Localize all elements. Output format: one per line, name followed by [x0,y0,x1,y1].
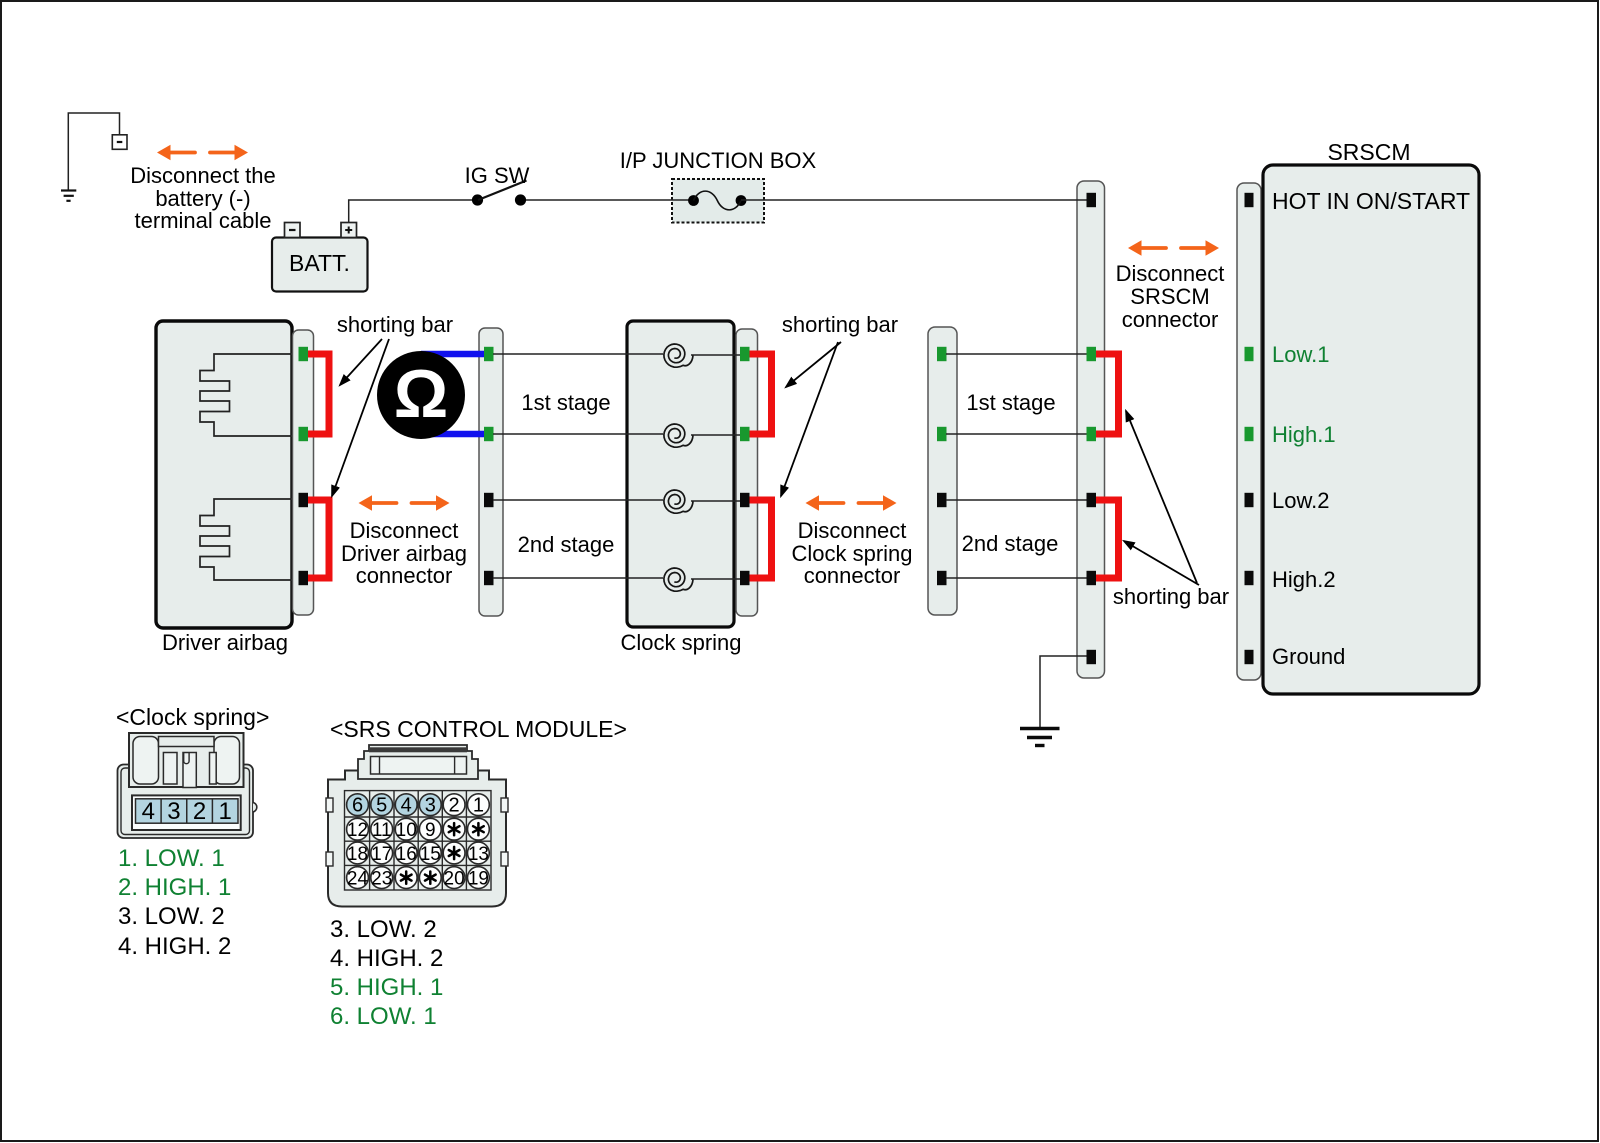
disconnect SRSCM arrows (orange) [1128,240,1219,256]
pins [484,347,494,585]
shorting bar (driver airbag, 1st stage) [307,354,329,434]
pins [937,347,947,585]
SRSCM legend [330,916,443,1030]
svg-text:3. LOW. 2: 3. LOW. 2 [118,903,225,930]
svg-text:23: 23 [371,868,392,889]
svg-text:Clock spring: Clock spring [620,630,741,655]
arrow to SRSCM shorting bar 1 [1126,411,1197,583]
Clock spring box [627,321,734,627]
svg-text:shorting bar: shorting bar [782,312,898,337]
svg-text:Disconnect: Disconnect [1116,261,1225,286]
svg-text:3: 3 [167,798,180,825]
svg-text:2nd stage: 2nd stage [962,531,1059,556]
svg-text:<SRS CONTROL MODULE>: <SRS CONTROL MODULE> [330,716,627,742]
svg-text:connector: connector [356,563,453,588]
svg-text:19: 19 [468,868,489,889]
svg-text:9: 9 [425,820,436,841]
svg-text:5: 5 [376,795,387,817]
svg-text:20: 20 [444,868,465,889]
ohmmeter symbol [377,351,465,439]
wire battery (-) to ground [68,113,119,190]
svg-text:terminal cable: terminal cable [135,208,272,233]
I/P JUNCTION BOX [620,148,817,223]
svg-text:3. LOW. 2: 3. LOW. 2 [330,916,437,943]
svg-text:1. LOW. 1: 1. LOW. 1 [118,845,225,872]
svg-text:connector: connector [804,563,901,588]
blue wire top (ohmmeter to pin) [421,351,487,358]
wires strip to clock spring [493,354,663,578]
svg-text:Ω: Ω [394,356,449,432]
SRSCM connector top tab [358,745,478,779]
clock spring right connector strip [736,329,758,616]
wire junction box to SRSCM harness connector [741,199,1087,201]
arrow to clock spring shorting bar 1 [786,342,841,387]
battery (-) terminal connector box [112,135,127,150]
blue wire bottom [421,431,487,438]
shorting bar (clock spring, 2nd stage) [748,500,772,578]
svg-text:shorting bar: shorting bar [337,312,453,337]
svg-text:High.2: High.2 [1272,567,1336,592]
harness strip (SRSCM side left) [928,327,957,615]
squib igniter 2 (2nd stage) [200,499,292,580]
svg-text:10: 10 [396,820,417,841]
disconnect clock spring arrows (orange) [806,495,897,511]
shorting bar (driver airbag, 2nd stage) [307,500,329,578]
disconnect driver airbag arrows (orange) [359,495,450,511]
pins driver airbag connector [299,347,309,585]
svg-text:shorting bar: shorting bar [1113,584,1229,609]
svg-text:Low.1: Low.1 [1272,342,1330,367]
disconnect battery arrows (orange) [157,145,248,161]
svg-text:I/P JUNCTION BOX: I/P JUNCTION BOX [620,148,817,173]
arrow to shorting bar 2 [332,339,389,496]
pins SRSCM strip [1245,193,1254,664]
svg-text:2nd stage: 2nd stage [518,532,615,557]
pins clock spring right [740,347,750,585]
svg-text:4: 4 [142,798,155,825]
svg-text:4. HIGH. 2: 4. HIGH. 2 [330,945,443,972]
ground (battery negative) [61,191,76,201]
svg-text:2: 2 [193,798,206,825]
SRSCM pin labels [1272,188,1470,669]
wires to SRSCM harness connector [946,354,1087,578]
svg-text:11: 11 [372,820,392,841]
svg-text:1: 1 [219,798,232,825]
pin grid frame [345,791,492,890]
svg-text:SRSCM: SRSCM [1130,284,1209,309]
shorting bar (clock spring, 1st stage) [748,354,772,434]
driver airbag connector strip [293,330,314,615]
svg-text:Disconnect the: Disconnect the [130,163,276,188]
svg-text:<Clock spring>: <Clock spring> [116,704,269,730]
svg-text:Disconnect: Disconnect [350,518,459,543]
pin circles will be injected here [347,794,369,816]
arrow to clock spring shorting bar 2 [781,342,838,496]
pin numbers 4 3 2 1 [142,798,232,825]
label disconnect driver airbag [341,518,467,588]
svg-text:IG SW: IG SW [465,163,530,188]
squib igniter 1 (1st stage) [200,354,292,436]
svg-text:HOT IN ON/START: HOT IN ON/START [1272,188,1470,214]
svg-text:17: 17 [371,844,392,865]
svg-text:3: 3 [425,795,436,817]
svg-text:Low.2: Low.2 [1272,488,1330,513]
ground wire from SRSCM connector [1040,656,1087,727]
switch IG SW [465,163,530,206]
svg-text:6. LOW. 1: 6. LOW. 1 [330,1003,437,1030]
svg-text:1st stage: 1st stage [521,390,610,415]
clock spring connector upper housing [129,733,244,788]
label: disconnect battery text [130,163,276,233]
ground symbol (SRSCM) [1020,729,1060,746]
connector window [132,795,241,830]
svg-text:4: 4 [401,795,412,817]
label disconnect SRSCM [1116,261,1225,332]
svg-text:18: 18 [347,844,368,865]
SRSCM attached connector strip [1237,183,1261,680]
svg-text:2: 2 [449,795,460,817]
harness connector strip (clock spring left side) [479,328,503,616]
coil 3 [664,490,693,513]
label disconnect clock spring [791,518,912,588]
arrow to SRSCM shorting bar 2 [1124,541,1199,585]
shorting bar (SRSCM, 1st stage) [1095,354,1119,434]
svg-text:1st stage: 1st stage [966,390,1055,415]
fuse inside junction box [688,191,746,210]
coil 2 [664,424,693,447]
SRSCM harness connector strip (tall) [1077,181,1105,678]
wire battery + to IG SW [349,200,472,223]
Driver airbag box [156,321,292,628]
svg-text:5. HIGH. 1: 5. HIGH. 1 [330,974,443,1001]
svg-text:16: 16 [396,844,417,865]
coil 1 [664,344,693,367]
svg-text:BATT.: BATT. [289,250,350,276]
battery BATT. [272,223,368,292]
SRSCM connector body [326,771,508,907]
clock spring legend [118,845,231,960]
svg-text:SRSCM: SRSCM [1327,139,1410,165]
svg-text:13: 13 [468,844,489,865]
svg-text:15: 15 [420,844,441,865]
pin cells 4 3 2 1 [136,799,239,823]
arrow to shorting bar 1 [340,339,382,385]
svg-text:connector: connector [1122,307,1219,332]
wires coil to right strip [691,355,741,579]
svg-text:2. HIGH. 1: 2. HIGH. 1 [118,874,231,901]
svg-text:Ground: Ground [1272,644,1345,669]
svg-text:24: 24 [347,868,369,889]
clock spring connector lower housing [118,765,257,839]
svg-text:6: 6 [352,795,363,817]
svg-text:4. HIGH. 2: 4. HIGH. 2 [118,933,231,960]
shorting bar (SRSCM, 2nd stage) [1095,500,1119,578]
coil 4 [664,568,693,591]
pins tall strip [1087,193,1097,664]
wire IG SW to junction box [526,199,693,201]
svg-text:Driver airbag: Driver airbag [162,630,288,655]
svg-text:12: 12 [347,820,368,841]
svg-text:1: 1 [473,795,484,817]
svg-text:High.1: High.1 [1272,422,1336,447]
SRSCM module box [1263,165,1479,694]
svg-text:Disconnect: Disconnect [798,518,907,543]
